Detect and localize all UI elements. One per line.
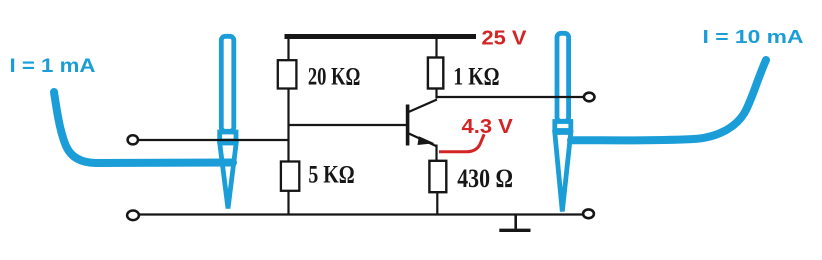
wire divider column bbox=[287, 89, 289, 163]
wire base bbox=[288, 124, 407, 126]
resistor R1 20 KΩ bbox=[278, 60, 297, 88]
annotation curve I = 10 mA bbox=[571, 60, 766, 140]
svg-text:I = 10 mA: I = 10 mA bbox=[703, 27, 804, 47]
probe left bbox=[220, 36, 237, 208]
probe right bbox=[555, 33, 571, 211]
wire R1 top lead bbox=[287, 38, 289, 61]
annotation arrow 4.3 V bbox=[439, 134, 484, 152]
wire collector stub bbox=[435, 89, 437, 99]
svg-text:5 KΩ: 5 KΩ bbox=[308, 162, 354, 189]
wire R2 bottom lead bbox=[287, 191, 289, 215]
svg-text:430 Ω: 430 Ω bbox=[457, 164, 513, 193]
resistor RE 430 Ω bbox=[429, 161, 446, 192]
svg-text:20 KΩ: 20 KΩ bbox=[308, 63, 361, 90]
bottom rail bbox=[139, 213, 583, 215]
svg-text:1 KΩ: 1 KΩ bbox=[453, 63, 499, 90]
bottom-right terminal bbox=[583, 209, 594, 218]
power rail +25V bbox=[285, 34, 477, 39]
output terminal bbox=[584, 93, 595, 102]
ground bbox=[499, 215, 530, 230]
transistor Q1 base bar bbox=[406, 105, 410, 146]
svg-text:25 V: 25 V bbox=[482, 27, 528, 49]
wire emitter vertical bbox=[435, 145, 437, 163]
bottom-left terminal bbox=[127, 211, 139, 221]
svg-text:I = 1 mA: I = 1 mA bbox=[10, 56, 96, 77]
wire output bbox=[437, 96, 585, 98]
wire RE bottom lead bbox=[436, 192, 438, 215]
svg-text:4.3 V: 4.3 V bbox=[462, 116, 514, 138]
resistor RC 1 KΩ bbox=[428, 58, 443, 89]
annotation curve I = 1 mA bbox=[54, 92, 233, 163]
resistor R2 5 KΩ bbox=[281, 162, 299, 191]
transistor Q1 collector lead bbox=[409, 100, 438, 113]
transistor Q1 emitter lead bbox=[409, 134, 436, 147]
input terminal bbox=[128, 135, 138, 144]
wire input bbox=[138, 139, 290, 141]
wire RC top lead bbox=[435, 38, 437, 58]
